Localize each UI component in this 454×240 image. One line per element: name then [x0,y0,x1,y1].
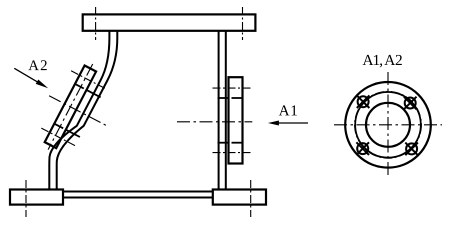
side flange bore line lower right [232,142,243,144]
bottom right flange block [213,190,266,205]
angled flange upper bolt axis [71,71,105,89]
vertical pipe left wall [218,31,220,190]
top flange left bolt axis [95,7,97,40]
angled pipe right wall [57,31,118,191]
bolt hole lower left [356,142,369,155]
A2 arrowhead [36,80,49,89]
side flange bore line upper left [218,97,229,99]
angled flange stub axis centerline [49,96,106,126]
angled flange bore line lower inner [54,124,63,129]
side view horizontal centerline [177,121,252,123]
side flange A1 plate [229,77,243,163]
flange face view bolt circle centerline [355,91,422,158]
base plate bottom edge [63,197,213,199]
view title A1, A2 [363,55,402,67]
bolt hole upper right [404,97,417,110]
side flange bore line lower left [218,142,229,144]
top flange right bolt axis [242,7,244,40]
A1 arrowhead [268,121,279,126]
A1 view arrow shaft [272,122,308,124]
angled pipe left wall [49,31,109,191]
bolt hole upper left [357,95,370,108]
bottom left block bolt axis [25,180,27,217]
vertical pipe right wall [225,31,227,190]
top flange plate [83,14,256,30]
flange face view raised face circle [355,92,421,158]
angled flange length centerline [48,64,93,150]
angled flange bore line lower outer [66,130,80,137]
flange face view outer circle [345,82,431,168]
side flange lower bolt axis [213,152,253,154]
bottom left flange block [10,190,63,205]
side flange bore line upper right [232,97,243,99]
angled flange lower bolt axis [41,128,75,146]
angled flange A2 plate [45,66,96,149]
flange face view vertical centerline [387,72,389,176]
flange face view bore circle [366,103,410,147]
side flange upper bolt axis [213,87,253,89]
A2 view arrow shaft [14,68,38,82]
base plate top edge [63,191,213,193]
flange face view horizontal centerline [334,124,442,126]
angled flange bore line upper inner [75,84,84,89]
bottom right block bolt axis [250,180,252,217]
label A2 [28,60,46,70]
angled flange bore line upper outer [87,90,101,97]
label A1 [279,105,297,115]
bolt hole lower right [405,143,418,156]
